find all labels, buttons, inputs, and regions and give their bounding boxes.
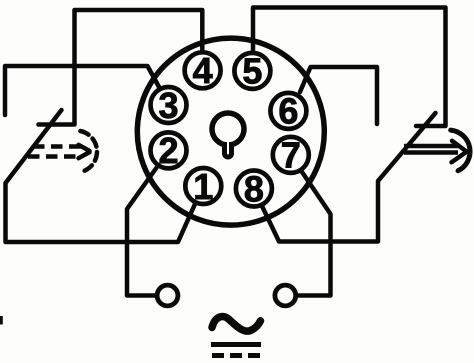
left actuator dashed arrow shaft upper [33, 144, 86, 149]
svg-text:2: 2 [158, 130, 178, 171]
pin 4 [185, 52, 221, 88]
left actuator arrowhead [79, 145, 90, 158]
wire pin2 to left coil terminal [127, 167, 157, 296]
svg-text:3: 3 [158, 85, 178, 126]
right switch blade and wire to pin8 [262, 113, 436, 242]
pin 1 [185, 168, 221, 204]
svg-text:4: 4 [193, 50, 213, 91]
pin 8 [236, 171, 272, 207]
right actuator arrowhead [452, 141, 466, 163]
pin 3 [151, 87, 187, 123]
right actuator arrow shaft lower [404, 150, 458, 155]
wire pin4 to left rail and stub (fixed contact of left switch) [39, 10, 203, 125]
pin 2 [151, 132, 187, 168]
right actuator arc [451, 130, 470, 171]
wire pin6 to right open contact [300, 67, 377, 124]
svg-text:6: 6 [278, 91, 298, 132]
left switch blade and wire to pin1 [6, 110, 196, 242]
svg-text:5: 5 [242, 51, 262, 92]
edge speck [0, 316, 3, 325]
pin 5 [234, 53, 270, 89]
left coil terminal [157, 285, 178, 306]
wire pin3 to far-left open contact [5, 66, 159, 115]
svg-text:1: 1 [193, 166, 213, 207]
svg-text:7: 7 [281, 135, 301, 176]
svg-text:8: 8 [244, 168, 264, 209]
AC supply tilde [212, 317, 261, 332]
wire pin7 to right coil terminal [298, 172, 331, 296]
keyway notch [225, 142, 232, 157]
pin 6 [270, 93, 306, 129]
keyway circle [212, 113, 244, 145]
pin 7 [273, 137, 309, 173]
AC supply solid bar [211, 342, 261, 347]
left actuator dashed arrow shaft lower [28, 154, 82, 159]
left actuator dashed arc [80, 131, 97, 172]
AC supply dashed bar [212, 353, 260, 358]
socket outline (octal relay socket) [137, 38, 324, 225]
wire pin5 to right rail and stub (fixed contact of right switch) [253, 8, 446, 127]
right coil terminal [275, 285, 296, 306]
right actuator arrow shaft upper [404, 144, 458, 149]
